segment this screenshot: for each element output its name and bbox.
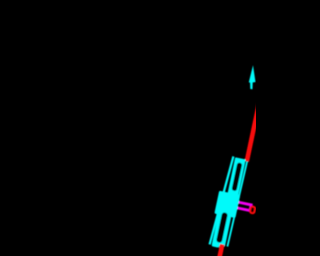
outline right line: [227, 162, 247, 247]
magenta handle: [235, 202, 251, 211]
wedge tip top-right: [249, 65, 256, 89]
outline left line: [210, 156, 234, 244]
body group: [205, 155, 264, 256]
red cap: [250, 206, 256, 213]
barrel upper section: [228, 157, 246, 195]
bulge middle section: [214, 191, 240, 218]
red base: [217, 244, 225, 256]
lower-left foot extension: [211, 235, 221, 248]
upper slot: [232, 162, 243, 191]
lower slot: [216, 212, 228, 243]
needle (red diagonal line): [245, 102, 262, 162]
lower section: [212, 214, 231, 247]
